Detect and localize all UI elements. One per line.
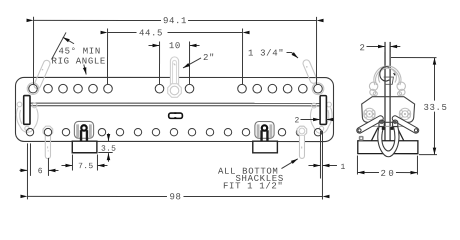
left clamp block xyxy=(74,121,93,141)
top hole row xyxy=(29,84,323,93)
svg-text:FIT 1 1/2": FIT 1 1/2" xyxy=(223,181,284,191)
dimension 6 xyxy=(19,158,58,176)
id plate xyxy=(169,113,183,118)
body flange seam xyxy=(363,125,412,127)
svg-text:2": 2" xyxy=(203,53,215,63)
side view center plate xyxy=(385,42,390,141)
beam mid seam lines xyxy=(30,102,320,104)
right hanger plate xyxy=(253,141,278,153)
dimension 3.5 xyxy=(98,133,112,161)
plate lower lug flare xyxy=(384,77,394,84)
dimension 44.5 xyxy=(108,28,243,84)
beam outline xyxy=(15,77,333,141)
45 deg leader arrow xyxy=(63,37,74,44)
dimension 94.1 xyxy=(34,17,317,85)
svg-text:1: 1 xyxy=(340,163,345,172)
rosette nut left xyxy=(364,108,375,119)
svg-text:44.5: 44.5 xyxy=(139,28,163,38)
faint hanging link bottom x302 xyxy=(297,126,307,158)
dimension 10 xyxy=(149,41,200,84)
svg-text:98: 98 xyxy=(169,192,181,202)
svg-text:94.1: 94.1 xyxy=(163,16,187,26)
gusset lines xyxy=(371,128,378,141)
side view top shackle (gray) xyxy=(369,66,405,96)
right clamp block xyxy=(255,122,274,142)
faint sling link top-left xyxy=(27,59,51,94)
svg-text:7.5: 7.5 xyxy=(78,162,93,171)
dimension 7.5 xyxy=(61,154,107,170)
dimension 33.5 xyxy=(391,58,437,155)
bottom hole row xyxy=(26,128,321,136)
rosette nut right xyxy=(399,108,410,119)
svg-text:45° MIN: 45° MIN xyxy=(59,46,101,56)
base nut xyxy=(359,136,364,141)
svg-text:10: 10 xyxy=(169,41,181,51)
faint hanging link bottom x48 xyxy=(43,126,53,159)
svg-text:RIG ANGLE: RIG ANGLE xyxy=(52,56,106,66)
left slot xyxy=(24,96,30,125)
svg-text:33.5: 33.5 xyxy=(423,103,447,113)
right slot xyxy=(320,96,326,125)
faint shackle on right slot xyxy=(310,102,332,133)
faint shackle on left slot xyxy=(16,102,38,132)
svg-text:20: 20 xyxy=(380,169,396,179)
svg-text:2: 2 xyxy=(360,43,366,53)
shackles note leader xyxy=(281,159,297,169)
right lug xyxy=(391,115,419,134)
angle reference leader xyxy=(84,64,86,74)
svg-text:2: 2 xyxy=(294,116,299,125)
side view body xyxy=(362,97,415,123)
faint sling link top-right xyxy=(302,59,324,95)
hook curl dark xyxy=(380,67,390,81)
left hanger plate xyxy=(72,141,97,153)
rig angle sling line xyxy=(52,32,67,59)
bottom shackle side view xyxy=(378,120,399,157)
svg-text:6: 6 xyxy=(38,167,43,176)
top center link xyxy=(168,57,182,97)
svg-text:3.5: 3.5 xyxy=(101,145,116,154)
base plate xyxy=(358,141,418,154)
dimension 98 xyxy=(27,143,322,199)
dimension 1 xyxy=(308,131,337,200)
dimension 20 xyxy=(357,156,417,175)
left lug xyxy=(356,115,384,134)
svg-text:1 3/4": 1 3/4" xyxy=(248,49,284,59)
